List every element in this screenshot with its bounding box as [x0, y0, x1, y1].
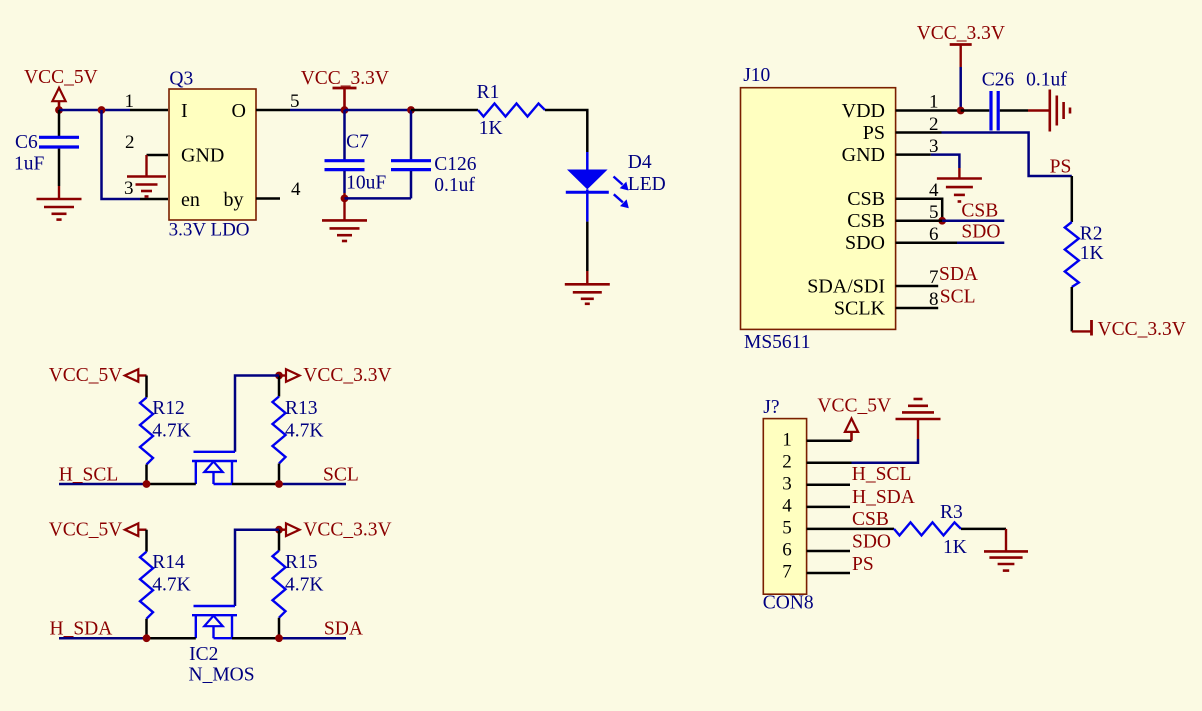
ground right of R3 — [984, 550, 1028, 553]
svg-text:J?: J? — [763, 397, 779, 418]
capacitor C26 — [961, 109, 990, 112]
svg-text:VDD: VDD — [842, 100, 885, 122]
inverted ground at J? pin 2 — [896, 418, 941, 421]
wire Q3 output pin 5 — [256, 109, 290, 112]
svg-text:D4: D4 — [628, 152, 652, 173]
junction VDD — [957, 107, 965, 115]
J10 pin 5 wire CSB — [896, 220, 943, 223]
svg-text:R2: R2 — [1080, 224, 1103, 245]
capacitor C7 — [343, 110, 346, 160]
wire SCL — [232, 483, 279, 486]
svg-text:PS: PS — [1050, 157, 1072, 178]
junction SCL — [275, 480, 283, 488]
J? pin 3 wire — [807, 484, 850, 487]
svg-text:VCC_3.3V: VCC_3.3V — [1098, 319, 1186, 340]
svg-text:1uF: 1uF — [14, 153, 45, 174]
junction node en branch — [98, 106, 106, 114]
svg-text:SDA/SDI: SDA/SDI — [807, 275, 885, 297]
svg-text:3: 3 — [782, 473, 792, 494]
svg-text:H_SDA: H_SDA — [50, 619, 113, 640]
J10 pin 4 wire CSB — [896, 199, 943, 221]
svg-text:3: 3 — [124, 178, 134, 199]
J? pin 1 wire to VCC_5V — [807, 439, 852, 442]
junction VCC_3.3V rail — [275, 526, 283, 534]
svg-text:GND: GND — [181, 144, 224, 166]
svg-text:PS: PS — [863, 122, 885, 144]
svg-text:CON8: CON8 — [763, 592, 814, 613]
resistor R2 — [1065, 222, 1079, 287]
op-amp U: regulator Q3 body — [169, 89, 256, 220]
wire PS to R2 — [1071, 176, 1074, 222]
svg-text:H_SCL: H_SCL — [59, 464, 119, 485]
svg-text:J10: J10 — [743, 65, 770, 86]
svg-text:LED: LED — [628, 174, 666, 195]
svg-text:CSB: CSB — [852, 509, 889, 530]
junction H_SDA — [143, 634, 151, 642]
ground below C7 — [322, 219, 367, 222]
svg-text:O: O — [232, 100, 246, 122]
resistor R3 — [894, 522, 961, 535]
wire to R1 — [411, 109, 478, 112]
svg-text:R13: R13 — [285, 398, 318, 419]
svg-text:2: 2 — [782, 451, 792, 472]
svg-text:SCL: SCL — [940, 287, 976, 308]
J? pin 5 wire to R3 — [807, 528, 894, 531]
svg-text:4.7K: 4.7K — [152, 575, 190, 596]
svg-text:PS: PS — [852, 554, 874, 575]
svg-text:VCC_5V: VCC_5V — [24, 67, 98, 88]
svg-text:VCC_3.3V: VCC_3.3V — [301, 68, 389, 89]
svg-text:SCLK: SCLK — [834, 297, 886, 319]
svg-text:GND: GND — [842, 144, 885, 166]
junction C126 top — [407, 106, 415, 114]
svg-text:R12: R12 — [152, 398, 185, 419]
svg-text:C7: C7 — [346, 132, 369, 153]
J? pin 6 wire — [807, 550, 850, 553]
svg-text:SDA: SDA — [324, 619, 363, 640]
svg-text:4.7K: 4.7K — [285, 421, 323, 442]
capacitor C6 — [58, 110, 61, 136]
svg-text:10uF: 10uF — [346, 173, 386, 194]
svg-text:R15: R15 — [285, 552, 318, 573]
wire en branch from node to Q3 pin 3 — [102, 110, 141, 199]
wire VCC_5V rail to Q3 pin 1 — [59, 109, 130, 112]
svg-text:CSB: CSB — [847, 188, 885, 210]
svg-text:VCC_3.3V: VCC_3.3V — [303, 365, 391, 386]
wire R2 to VCC_3.3V — [1071, 287, 1074, 331]
svg-text:VCC_5V: VCC_5V — [49, 365, 123, 386]
connector J10 body — [741, 88, 896, 330]
wire R1 to LED — [545, 110, 587, 152]
junction at C6/VCC_5V — [55, 106, 63, 114]
J? pin 4 wire — [807, 506, 850, 509]
junction C7 ground node — [341, 195, 349, 203]
wire SDA — [232, 637, 279, 640]
svg-text:1K: 1K — [943, 537, 967, 558]
svg-text:H_SCL: H_SCL — [852, 464, 912, 485]
resistor R15 4.7K — [278, 530, 281, 551]
LED arrows — [614, 177, 623, 185]
svg-text:R1: R1 — [477, 82, 500, 103]
Q3 GND pin wire — [147, 154, 169, 157]
capacitor C126 — [410, 110, 413, 160]
wire gate rail — [235, 376, 279, 452]
svg-text:CSB: CSB — [961, 201, 998, 222]
J10 pin 1 wire — [896, 109, 961, 112]
J10 pin 3 wire GND — [896, 153, 931, 156]
svg-text:6: 6 — [782, 540, 792, 561]
svg-text:VCC_5V: VCC_5V — [817, 395, 891, 416]
J10 pin 2 wire PS — [896, 131, 942, 134]
svg-text:R14: R14 — [152, 552, 185, 573]
resistor R14 4.7K — [145, 530, 148, 552]
resistor R13 4.7K — [278, 376, 281, 397]
J? pin 7 wire — [807, 572, 850, 575]
svg-text:H_SDA: H_SDA — [852, 487, 915, 508]
wire gate rail — [235, 530, 279, 606]
svg-text:VCC_3.3V: VCC_3.3V — [303, 519, 391, 540]
svg-text:VCC_3.3V: VCC_3.3V — [917, 23, 1005, 44]
svg-text:C126: C126 — [434, 154, 477, 175]
wire C7 to C126 bottom — [345, 197, 412, 200]
svg-text:5: 5 — [290, 91, 300, 112]
svg-text:SDO: SDO — [845, 232, 885, 254]
svg-text:3.3V LDO: 3.3V LDO — [169, 220, 250, 241]
svg-text:MS5611: MS5611 — [744, 332, 810, 353]
svg-text:C6: C6 — [15, 132, 38, 153]
svg-text:4: 4 — [291, 179, 301, 200]
svg-text:N_MOS: N_MOS — [189, 665, 255, 686]
J10 pin 6 wire SDO — [896, 242, 957, 245]
junction VCC_3.3V rail — [275, 372, 283, 380]
svg-text:7: 7 — [782, 562, 792, 583]
resistor R1 — [478, 104, 545, 117]
svg-text:4.7K: 4.7K — [152, 421, 190, 442]
svg-text:IC2: IC2 — [189, 644, 218, 665]
svg-text:2: 2 — [125, 132, 135, 153]
svg-text:1: 1 — [125, 91, 135, 112]
junction H_SCL — [143, 480, 151, 488]
junction CSB pins — [938, 217, 946, 225]
svg-text:SDA: SDA — [939, 264, 978, 285]
svg-text:CSB: CSB — [847, 210, 885, 232]
ground below LED — [565, 283, 610, 286]
LED D4 — [586, 152, 589, 170]
junction SDA — [275, 634, 283, 642]
svg-text:1K: 1K — [1080, 243, 1104, 264]
svg-text:1K: 1K — [479, 118, 503, 139]
wire H_SDA — [59, 637, 147, 640]
ground right of C26 — [1028, 109, 1049, 111]
svg-text:C26: C26 — [982, 70, 1015, 91]
transistor N-MOSFET — [194, 605, 236, 607]
svg-text:VCC_5V: VCC_5V — [49, 519, 123, 540]
wire R3 to ground — [961, 528, 1006, 531]
svg-text:en: en — [181, 189, 200, 211]
svg-text:1: 1 — [782, 429, 792, 450]
svg-text:by: by — [224, 189, 244, 211]
svg-text:4: 4 — [782, 495, 792, 516]
wire LED to ground — [586, 222, 589, 271]
ground at J10 GND — [937, 177, 982, 180]
svg-text:0.1uf: 0.1uf — [434, 175, 475, 196]
svg-text:5: 5 — [782, 518, 792, 539]
Q3 pin 4 stub — [256, 197, 280, 200]
J? pin 2 wire — [807, 462, 852, 465]
junction VCC_3.3V / C7 — [341, 106, 349, 114]
svg-text:R3: R3 — [940, 502, 963, 523]
svg-text:SDO: SDO — [961, 221, 1000, 242]
svg-text:I: I — [181, 100, 188, 122]
J10 pin 7 wire SDA — [896, 285, 939, 288]
wire rail C7 to C126 top — [345, 109, 412, 112]
ground at Q3 GND — [127, 175, 166, 178]
wire H_SCL — [59, 483, 147, 486]
svg-text:4.7K: 4.7K — [285, 575, 323, 596]
connector J? body — [763, 419, 806, 595]
J10 pin 8 wire SCL — [896, 307, 939, 310]
svg-text:0.1uf: 0.1uf — [1026, 70, 1067, 91]
transistor N-MOSFET — [194, 451, 236, 453]
resistor R12 4.7K — [145, 376, 148, 398]
svg-text:SDO: SDO — [852, 531, 891, 552]
svg-text:Q3: Q3 — [169, 68, 193, 89]
svg-text:SCL: SCL — [323, 464, 359, 485]
ground below C6 — [58, 186, 60, 199]
power symbol VCC_3.3V at R2 — [1072, 330, 1092, 332]
